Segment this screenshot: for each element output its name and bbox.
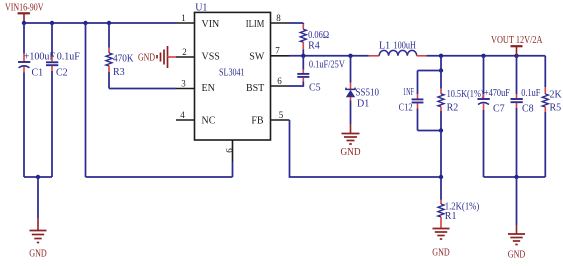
svg-text:1: 1 — [181, 13, 186, 23]
junction SW at R4 C5 — [301, 54, 305, 58]
op-amp U1 SL3041 box — [195, 3, 271, 140]
resistor R4 0.06ohm — [300, 23, 329, 56]
svg-text:R3: R3 — [113, 67, 125, 78]
junction VOUT at C8 — [514, 54, 518, 58]
wire R2 branch top — [440, 56, 442, 71]
svg-text:470K: 470K — [113, 54, 134, 65]
svg-text:VIN: VIN — [202, 19, 220, 30]
resistor R3 470K — [106, 23, 134, 89]
svg-text:VIN16-90V: VIN16-90V — [5, 3, 44, 14]
resistor R5 2K — [542, 56, 562, 177]
junction VIN rail at x87 — [83, 21, 87, 25]
ground left under C1 C2 — [29, 218, 47, 260]
svg-text:U1: U1 — [195, 3, 207, 14]
svg-text:GND: GND — [432, 248, 450, 259]
svg-text:3: 3 — [181, 79, 186, 89]
junction left ground node — [36, 175, 40, 179]
svg-text:C2: C2 — [56, 68, 68, 79]
svg-text:9: 9 — [224, 148, 234, 153]
pin 3 EN stub — [176, 88, 195, 90]
svg-text:2: 2 — [182, 47, 187, 57]
svg-text:R1: R1 — [445, 211, 457, 222]
svg-text:GND: GND — [341, 147, 361, 158]
wire left ground drop — [37, 177, 39, 218]
svg-text:2K: 2K — [550, 90, 563, 101]
svg-text:0.1uF: 0.1uF — [521, 88, 540, 99]
wire output bottom rail — [484, 176, 546, 178]
power port VIN16-90V — [5, 3, 44, 23]
svg-text:7: 7 — [275, 46, 280, 56]
svg-text:6: 6 — [277, 76, 282, 86]
svg-text:R4: R4 — [308, 41, 320, 52]
junction C12 R2 top — [439, 68, 443, 72]
junction VIN rail at C1 — [22, 21, 26, 25]
junction VOUT at R2 branch — [439, 54, 443, 58]
svg-text:0.1uF: 0.1uF — [57, 52, 81, 63]
wire pin 8 to R4 — [289, 22, 303, 24]
ground under D1 — [341, 124, 361, 158]
junction VOUT at C7 — [481, 54, 485, 58]
svg-text:GND: GND — [138, 53, 155, 64]
svg-text:C8: C8 — [522, 104, 534, 115]
wire C1 C2 bottom join — [24, 176, 52, 178]
svg-text:+100uF: +100uF — [24, 52, 56, 63]
ground sideways at VSS pin 2 — [138, 46, 176, 68]
junction VIN rail at R3 — [107, 21, 111, 25]
pin 4 NC stub — [176, 119, 195, 121]
power port VOUT 12V/2A — [491, 35, 543, 56]
wire C12 top — [418, 70, 442, 72]
wire pin 9 to bottom rail — [232, 162, 234, 177]
svg-text:4: 4 — [180, 110, 185, 120]
svg-text:R2: R2 — [447, 103, 459, 114]
svg-text:C7: C7 — [493, 104, 505, 115]
capacitor C2 0.1uF — [46, 23, 80, 177]
svg-text:C1: C1 — [32, 68, 44, 79]
junction FB at R1 — [439, 175, 443, 179]
svg-text:L1: L1 — [379, 41, 390, 52]
svg-text:GND: GND — [29, 249, 47, 260]
junction VIN rail at C2 — [50, 21, 54, 25]
resistor R2 10.5K — [438, 71, 484, 131]
junction C12 R2 bottom — [439, 128, 443, 132]
svg-text:C12: C12 — [399, 103, 413, 114]
wire VOUT net top — [426, 55, 545, 57]
svg-text:NC: NC — [202, 116, 216, 127]
svg-text:GND: GND — [508, 250, 526, 261]
wire right ground drop — [516, 177, 518, 225]
junction output ground — [514, 175, 518, 179]
svg-text:SL3041: SL3041 — [219, 68, 245, 79]
svg-text:ILIM: ILIM — [246, 19, 265, 30]
wire SW net — [289, 55, 369, 57]
inductor L1 100uH — [369, 41, 427, 56]
svg-text:SS510: SS510 — [356, 88, 380, 99]
svg-text:FB: FB — [251, 116, 264, 127]
pin 6 BST stub — [271, 85, 290, 87]
pin 8 ILIM stub — [271, 22, 290, 24]
svg-text:SW: SW — [249, 51, 265, 62]
svg-text:R5: R5 — [550, 103, 562, 114]
svg-text:1NF: 1NF — [403, 87, 414, 98]
ground under R1 — [432, 229, 450, 259]
svg-text:+470uF: +470uF — [484, 88, 510, 99]
wire top VIN rail — [24, 22, 176, 24]
wire EN net — [109, 88, 176, 90]
ground right under C8 — [508, 225, 526, 261]
svg-text:0.1uF/25V: 0.1uF/25V — [309, 60, 346, 71]
pin 2 VSS stub — [176, 56, 195, 58]
wire R2 bottom to FB rail — [440, 131, 442, 178]
svg-text:EN: EN — [202, 83, 215, 94]
capacitor C7 470uF — [477, 56, 510, 177]
resistor R1 1.2K — [438, 177, 479, 229]
capacitor C5 0.1uF/25V — [289, 56, 346, 94]
svg-text:8: 8 — [276, 13, 281, 23]
pin 7 SW stub — [271, 55, 290, 57]
svg-text:5: 5 — [279, 110, 284, 120]
wire x87 vertical to bottom — [85, 23, 87, 177]
wire FB net — [290, 120, 442, 177]
capacitor C12 1NF — [399, 71, 424, 131]
svg-text:0.06Ω: 0.06Ω — [308, 30, 329, 41]
pin 1 VIN stub — [176, 22, 195, 24]
svg-text:D1: D1 — [357, 99, 369, 110]
pin 5 FB stub — [271, 119, 290, 121]
pin 9 stub — [232, 140, 234, 162]
svg-text:VOUT 12V/2A: VOUT 12V/2A — [491, 35, 543, 46]
wire bottom horizontal to pin9 — [86, 176, 233, 178]
wire C12 bottom — [418, 130, 442, 132]
svg-text:BST: BST — [246, 83, 264, 94]
svg-text:C5: C5 — [309, 83, 321, 94]
capacitor C8 0.1uF — [511, 56, 541, 177]
diode D1 SS510 — [346, 56, 379, 125]
svg-text:100uH: 100uH — [394, 41, 417, 52]
junction SW at D1 — [348, 54, 352, 58]
svg-text:VSS: VSS — [202, 51, 220, 62]
capacitor C1 100uF — [18, 23, 55, 177]
